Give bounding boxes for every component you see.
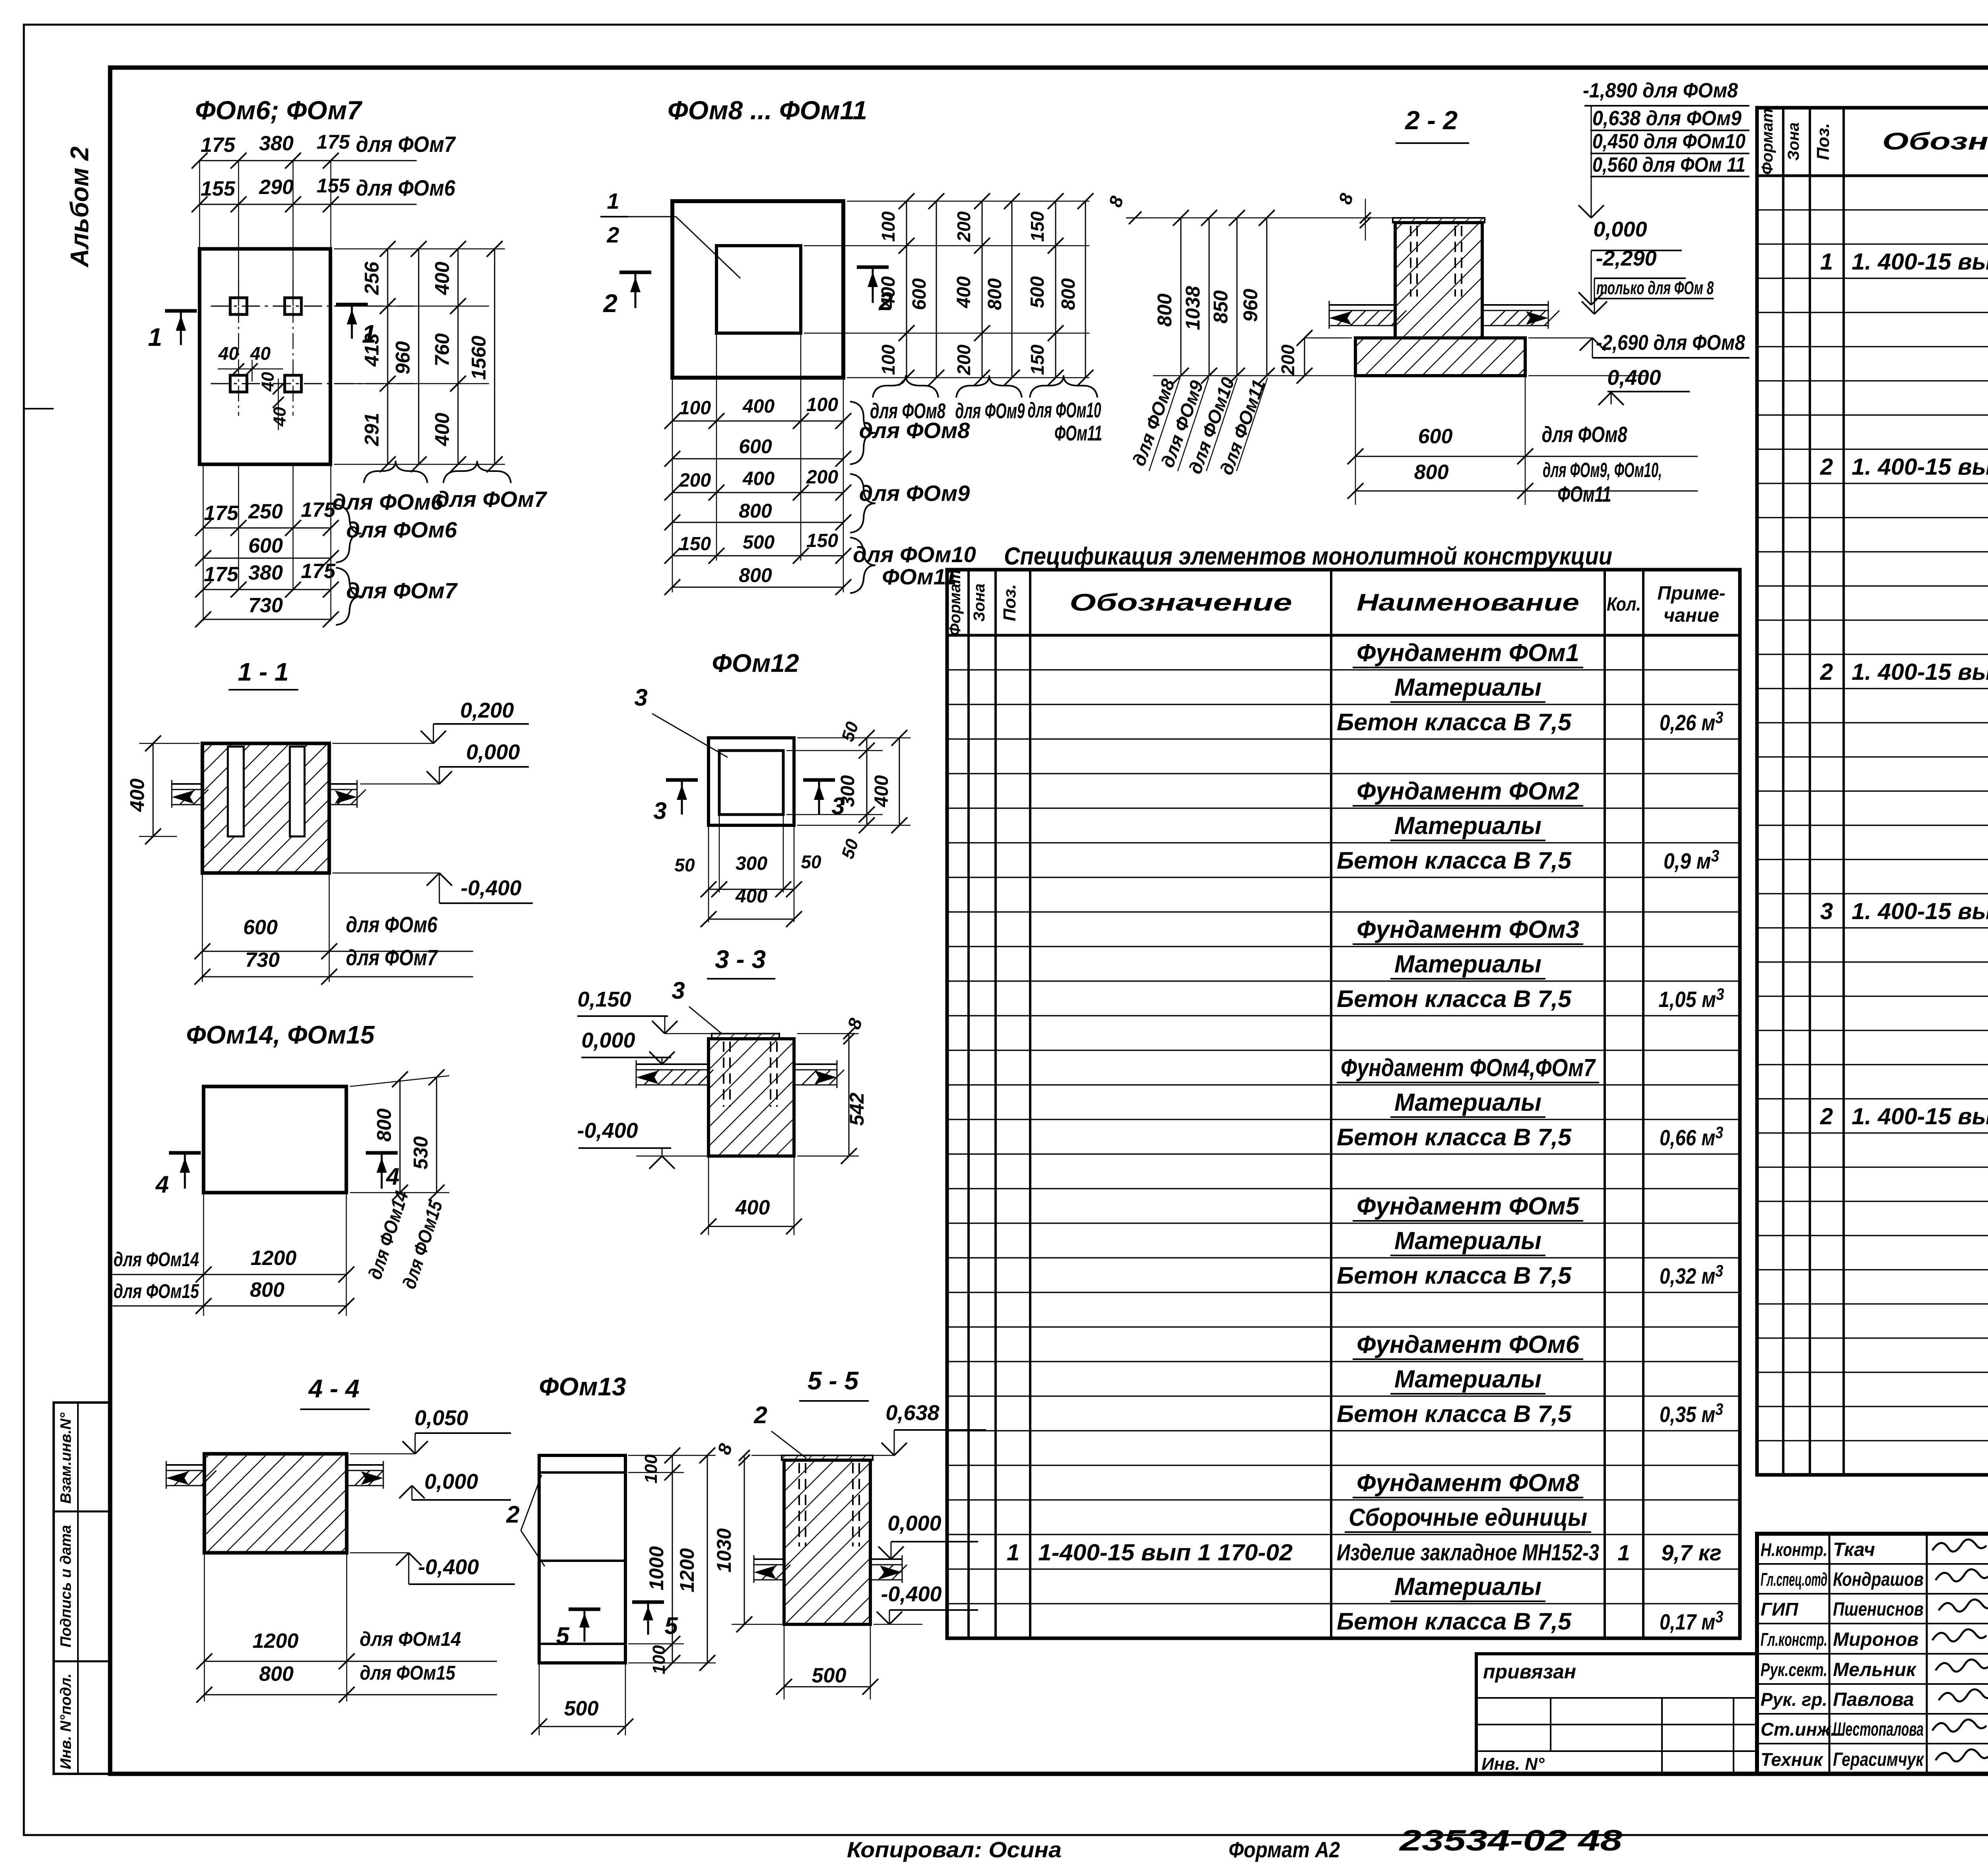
svg-text:1560: 1560	[468, 336, 490, 380]
right spec table row lines	[1757, 209, 1988, 210]
section mark 2 right	[857, 266, 889, 269]
svg-text:0,050: 0,050	[414, 1406, 468, 1430]
anchor bolt top-right	[285, 298, 301, 314]
middle spec table header	[947, 634, 1740, 637]
svg-text:100: 100	[806, 394, 838, 415]
svg-text:290: 290	[259, 176, 294, 199]
section 4-4 pier hatched	[204, 1454, 347, 1553]
svg-text:Материалы: Материалы	[1394, 674, 1541, 701]
svg-text:0,200: 0,200	[460, 698, 514, 722]
svg-text:для ФОм7: для ФОм7	[346, 945, 438, 970]
svg-text:для ФОм7: для ФОм7	[346, 578, 458, 603]
svg-text:Наименование: Наименование	[1357, 589, 1579, 616]
svg-text:500: 500	[1027, 276, 1048, 308]
svg-text:150: 150	[679, 533, 711, 555]
svg-text:0,000: 0,000	[887, 1511, 941, 1535]
plan FOm8-11 right extension lines	[847, 201, 1089, 202]
svg-text:1: 1	[1820, 249, 1833, 275]
left dim chains (2-2) 800/1038/850/960	[1126, 217, 1393, 219]
svg-text:Фундамент ФОм2: Фундамент ФОм2	[1357, 778, 1579, 805]
svg-text:для ФОм10: для ФОм10	[1028, 398, 1101, 422]
svg-text:Герасимчук: Герасимчук	[1833, 1749, 1924, 1770]
svg-text:Материалы: Материалы	[1394, 1227, 1541, 1255]
plan FOm8-11 outer square	[672, 201, 843, 378]
right spec table outline	[1757, 108, 1988, 1475]
svg-text:Поз.: Поз.	[1000, 584, 1019, 621]
dim 8 at left end of 2-2 top extension	[1126, 217, 1144, 219]
plan FOm12 inner square	[719, 751, 783, 815]
section mark 4 left	[169, 1151, 201, 1155]
svg-text:291: 291	[361, 413, 383, 446]
svg-text:150: 150	[1027, 211, 1048, 242]
svg-text:150: 150	[1027, 344, 1048, 375]
svg-text:960: 960	[1239, 289, 1262, 322]
svg-text:Ткач: Ткач	[1833, 1539, 1875, 1560]
svg-text:400: 400	[431, 262, 453, 295]
svg-text:-0,400: -0,400	[418, 1555, 479, 1579]
section 3-3 top plate	[712, 1034, 779, 1039]
section 3-3 bottom dim 400	[708, 1156, 709, 1235]
svg-text:40: 40	[250, 343, 271, 364]
section mark 1 left	[165, 309, 197, 313]
middle spec table column lines	[967, 570, 970, 1638]
svg-text:Рук. гр.: Рук. гр.	[1761, 1689, 1827, 1710]
svg-text:0,32 м3: 0,32 м3	[1660, 1261, 1723, 1288]
svg-text:0,450 для ФОм10: 0,450 для ФОм10	[1592, 130, 1745, 153]
svg-text:300: 300	[736, 853, 767, 874]
braces dlya FOm6 / FOm7 under right chains	[364, 461, 427, 483]
svg-text:800: 800	[1153, 293, 1176, 327]
section 4-4 floor slab left	[166, 1464, 204, 1466]
svg-text:2 - 2: 2 - 2	[1404, 105, 1458, 135]
svg-text:Изделие закладное МН152-3: Изделие закладное МН152-3	[1337, 1540, 1599, 1566]
svg-text:Формат А2: Формат А2	[1229, 1837, 1340, 1862]
svg-text:400: 400	[431, 413, 453, 446]
svg-text:2: 2	[1820, 454, 1833, 480]
svg-text:Подпись и дата: Подпись и дата	[58, 1525, 74, 1647]
svg-text:155: 155	[316, 175, 350, 197]
dim 8 right (3-3)	[797, 1033, 859, 1034]
svg-text:Кондрашов: Кондрашов	[1833, 1569, 1924, 1590]
bolt centerlines	[211, 306, 414, 307]
section 3-3 pier hatched	[709, 1039, 794, 1156]
svg-text:200: 200	[1277, 344, 1298, 375]
section 5-5 anchor slots dashed	[798, 1463, 800, 1546]
section 3-3 floor slab right	[794, 1063, 837, 1065]
svg-text:Материалы: Материалы	[1394, 1573, 1541, 1600]
svg-text:-1,890 для ФОм8: -1,890 для ФОм8	[1583, 79, 1738, 102]
svg-text:40: 40	[218, 343, 239, 364]
svg-text:50: 50	[801, 852, 821, 872]
svg-text:Зона: Зона	[1785, 122, 1802, 161]
svg-text:9,7 кг: 9,7 кг	[1661, 1540, 1722, 1565]
section 5-5 floor slab right	[870, 1558, 902, 1560]
middle spec table row lines	[947, 669, 1740, 670]
svg-text:2: 2	[1820, 1104, 1833, 1129]
svg-text:1-400-15 вып 1 170-02: 1-400-15 вып 1 170-02	[1038, 1540, 1293, 1566]
svg-text:100: 100	[878, 211, 899, 242]
svg-text:-0,400: -0,400	[881, 1582, 942, 1606]
privyazan grid	[1476, 1697, 1757, 1699]
svg-text:Инв. N°: Инв. N°	[1481, 1754, 1545, 1774]
svg-text:50: 50	[674, 855, 695, 875]
svg-text:0,560 для ФОм 11: 0,560 для ФОм 11	[1592, 153, 1745, 177]
svg-text:0,9 м3: 0,9 м3	[1664, 846, 1719, 873]
plan FOm12 outer square	[709, 738, 794, 825]
plan FOm6/7 extension verticals from dims	[199, 161, 200, 249]
svg-text:200: 200	[679, 470, 711, 491]
svg-text:1. 400-15 вып.1 170-02: 1. 400-15 вып.1 170-02	[1852, 249, 1988, 275]
svg-text:542: 542	[846, 1092, 868, 1126]
plan FOm8-11 inner square	[716, 246, 801, 333]
svg-text:Бетон класса В 7,5: Бетон класса В 7,5	[1337, 709, 1572, 735]
section 5-5 pier hatched	[784, 1460, 870, 1624]
svg-text:Альбом 2: Альбом 2	[65, 146, 94, 268]
svg-text:1: 1	[1617, 1540, 1630, 1565]
svg-text:Мельник: Мельник	[1833, 1659, 1917, 1680]
svg-text:800: 800	[259, 1663, 294, 1686]
svg-text:для ФОм6: для ФОм6	[346, 912, 438, 937]
right dim chain dlya FOm9: 200/400/200 and 800	[982, 201, 983, 246]
svg-text:1. 400-15 вып.1 180-14: 1. 400-15 вып.1 180-14	[1852, 1104, 1988, 1129]
svg-text:1200: 1200	[250, 1247, 297, 1270]
svg-text:Бетон класса В 7,5: Бетон класса В 7,5	[1337, 1124, 1572, 1150]
section mark 3 left	[666, 778, 698, 782]
section 3-3 floor slab left	[636, 1063, 709, 1065]
section 2-2 anchor slots dashed	[1410, 226, 1411, 297]
svg-text:1. 400-15 вып.1 180-14: 1. 400-15 вып.1 180-14	[1852, 454, 1988, 480]
section 4-4 floor slab right	[347, 1464, 383, 1466]
svg-text:Гл.спец.отд: Гл.спец.отд	[1761, 1569, 1827, 1590]
dim 542 right (3-3)	[797, 1156, 859, 1157]
svg-text:800: 800	[250, 1278, 285, 1302]
svg-text:ФОм14, ФОм15: ФОм14, ФОм15	[186, 1020, 375, 1049]
svg-text:380: 380	[248, 561, 283, 584]
svg-text:100: 100	[878, 344, 899, 375]
left margin stamp boxes	[54, 1403, 110, 1774]
svg-text:1: 1	[607, 188, 619, 213]
svg-text:ФОм8 ... ФОм11: ФОм8 ... ФОм11	[668, 95, 867, 125]
svg-text:для ФОм14: для ФОм14	[114, 1248, 199, 1271]
svg-text:Н.контр.: Н.контр.	[1761, 1539, 1827, 1560]
svg-text:175: 175	[316, 131, 350, 153]
svg-text:2: 2	[1820, 659, 1833, 685]
svg-text:Фундамент ФОм6: Фундамент ФОм6	[1357, 1331, 1580, 1358]
svg-text:400: 400	[742, 396, 775, 417]
svg-text:для ФОм8: для ФОм8	[1542, 422, 1628, 447]
svg-text:5 - 5: 5 - 5	[808, 1366, 859, 1395]
dim 200 (2-2 footing height)	[1304, 338, 1305, 376]
svg-text:5: 5	[664, 1612, 678, 1639]
svg-text:175: 175	[301, 499, 336, 522]
svg-text:Формат: Формат	[1759, 109, 1776, 175]
svg-text:для ФОм7: для ФОм7	[356, 132, 456, 157]
svg-text:3: 3	[653, 797, 666, 824]
svg-text:только для ФОм 8: только для ФОм 8	[1596, 277, 1714, 298]
middle spec table outline	[947, 570, 1740, 1638]
svg-text:3: 3	[672, 977, 685, 1004]
svg-text:0,638: 0,638	[885, 1401, 939, 1425]
section mark 4 right	[366, 1151, 398, 1155]
margin centering tick	[24, 408, 54, 409]
svg-text:150: 150	[806, 530, 838, 551]
right dim chain dlya FOm8: 100/400/100 and 600	[906, 201, 907, 246]
svg-text:400: 400	[953, 276, 975, 308]
svg-text:Взам.инв.N°: Взам.инв.N°	[58, 1412, 74, 1504]
svg-text:100: 100	[649, 1645, 669, 1674]
svg-text:Миронов: Миронов	[1833, 1629, 1918, 1650]
svg-text:Сборочные единицы: Сборочные единицы	[1349, 1504, 1587, 1531]
privyazan box	[1476, 1654, 1757, 1774]
section 2-2 floor slab right	[1482, 304, 1548, 306]
svg-text:0,000: 0,000	[1593, 217, 1647, 241]
svg-text:4: 4	[386, 1163, 399, 1190]
svg-text:Копировал: Осина: Копировал: Осина	[847, 1837, 1062, 1862]
svg-text:Обозначение: Обозначение	[1882, 128, 1988, 155]
svg-text:600: 600	[248, 534, 283, 557]
svg-text:Фундамент ФОм5: Фундамент ФОм5	[1357, 1193, 1580, 1220]
plan FOm6/7 bottom dim rows	[203, 464, 204, 621]
svg-text:0,000: 0,000	[424, 1470, 478, 1494]
svg-text:800: 800	[739, 500, 772, 522]
svg-text:Материалы: Материалы	[1394, 1089, 1541, 1116]
anchor bolt bottom-right	[285, 375, 301, 392]
svg-text:200: 200	[953, 344, 974, 375]
svg-text:1030: 1030	[713, 1528, 735, 1572]
svg-text:400: 400	[742, 468, 775, 489]
svg-text:Техник: Техник	[1761, 1749, 1824, 1770]
svg-text:Материалы: Материалы	[1394, 812, 1541, 840]
svg-text:0,000: 0,000	[581, 1028, 635, 1052]
svg-text:960: 960	[392, 341, 414, 374]
svg-text:4: 4	[155, 1171, 169, 1198]
svg-text:для ФОм6: для ФОм6	[332, 489, 443, 514]
svg-text:0,638 для ФОм9: 0,638 для ФОм9	[1592, 107, 1741, 130]
svg-text:Павлова: Павлова	[1833, 1689, 1914, 1710]
svg-text:256: 256	[361, 261, 383, 295]
section 1-1 pier hatched	[202, 743, 329, 873]
svg-text:Фундамент ФОм8: Фундамент ФОм8	[1357, 1469, 1580, 1497]
plan FOm8-11 bottom extension lines	[672, 378, 673, 592]
svg-text:40: 40	[258, 372, 278, 392]
svg-text:1: 1	[1007, 1540, 1019, 1566]
svg-text:Бетон класса В 7,5: Бетон класса В 7,5	[1337, 847, 1572, 874]
svg-text:500: 500	[743, 532, 775, 553]
svg-text:Бетон класса В 7,5: Бетон класса В 7,5	[1337, 1262, 1572, 1289]
section 2-2 floor slab left	[1329, 304, 1395, 306]
svg-text:0,66 м3: 0,66 м3	[1660, 1123, 1723, 1150]
svg-text:Материалы: Материалы	[1394, 1366, 1541, 1393]
svg-text:для ФОм7: для ФОм7	[436, 487, 547, 512]
svg-text:для ФОм6: для ФОм6	[346, 517, 457, 542]
svg-text:250: 250	[248, 500, 283, 523]
svg-text:Формат: Формат	[946, 570, 964, 636]
svg-text:400: 400	[126, 778, 148, 812]
svg-text:0,400: 0,400	[1607, 366, 1661, 390]
svg-text:5: 5	[556, 1622, 570, 1649]
plan FOm6/7 body rectangle	[200, 249, 330, 464]
svg-text:ФОм11: ФОм11	[1054, 421, 1102, 445]
section 5-5 top plate	[782, 1455, 873, 1460]
section 3-3 anchor slots dashed	[723, 1042, 724, 1107]
svg-text:1200: 1200	[252, 1630, 299, 1653]
section 1-1 floor slab left	[172, 783, 202, 785]
svg-text:300: 300	[837, 775, 858, 807]
svg-text:-0,400: -0,400	[577, 1119, 638, 1143]
section 4-4 bottom dims	[204, 1553, 205, 1701]
svg-text:1000: 1000	[645, 1546, 668, 1590]
svg-text:1038: 1038	[1182, 286, 1204, 330]
svg-text:чание: чание	[1664, 605, 1719, 626]
svg-text:Пшениснов: Пшениснов	[1833, 1599, 1924, 1620]
svg-text:3: 3	[1820, 898, 1833, 924]
plan FOm14/15 right dims 800 530	[350, 1076, 449, 1086]
plan FOm12 right dims 50 300 50 / 400	[797, 737, 911, 739]
svg-text:Зона: Зона	[971, 584, 988, 622]
plan FOm14/15 rectangle	[204, 1086, 346, 1193]
svg-text:600: 600	[739, 435, 772, 458]
svg-text:2: 2	[506, 1501, 519, 1528]
svg-text:1. 400-15 вып.1 180-14: 1. 400-15 вып.1 180-14	[1852, 659, 1988, 685]
svg-text:Приме-: Приме-	[1657, 583, 1725, 604]
svg-text:600: 600	[243, 916, 278, 939]
svg-text:400: 400	[735, 886, 767, 907]
svg-text:500: 500	[812, 1664, 846, 1687]
svg-text:Инв. N°подл.: Инв. N°подл.	[58, 1673, 74, 1769]
svg-text:для ФОм10: для ФОм10	[853, 542, 976, 567]
svg-text:Поз.: Поз.	[1813, 123, 1833, 160]
anchor bolt bottom-left	[230, 375, 247, 392]
braces and labels under right chains	[873, 375, 938, 398]
svg-text:2: 2	[753, 1402, 767, 1428]
section 2-2 bottom dims 600/800	[1355, 376, 1356, 505]
right dim chain dlya FOm10/11: 150/500/150 and 800	[1055, 201, 1056, 246]
svg-text:175: 175	[301, 560, 336, 583]
section 1-1 bottom dims	[202, 873, 203, 982]
svg-text:Кол.: Кол.	[1607, 594, 1641, 615]
svg-text:-2,290: -2,290	[1596, 246, 1656, 270]
dim 8 (2-2 plate)	[1360, 212, 1371, 223]
svg-text:850: 850	[1209, 290, 1232, 324]
svg-text:Фундамент ФОм4,ФОм7: Фундамент ФОм4,ФОм7	[1341, 1054, 1596, 1082]
svg-text:1. 400-15 вып.1 130-56: 1. 400-15 вып.1 130-56	[1852, 898, 1988, 924]
svg-text:175: 175	[201, 134, 236, 157]
svg-text:ФОм6; ФОм7: ФОм6; ФОм7	[195, 95, 363, 125]
svg-text:Гл.констр.: Гл.констр.	[1761, 1629, 1827, 1650]
svg-text:413: 413	[361, 333, 383, 367]
svg-text:730: 730	[248, 594, 283, 617]
svg-text:Обозначение: Обозначение	[1070, 589, 1292, 616]
svg-text:40: 40	[270, 407, 289, 427]
svg-text:Ст.инж.: Ст.инж.	[1761, 1719, 1836, 1740]
section 2-2 top plate	[1393, 218, 1485, 223]
svg-text:Фундамент ФОм1: Фундамент ФОм1	[1357, 639, 1579, 667]
svg-text:100: 100	[679, 398, 711, 419]
FOm13 body	[539, 1455, 625, 1663]
section 5-5 floor slab left	[754, 1558, 784, 1560]
svg-text:1 - 1: 1 - 1	[238, 658, 289, 686]
svg-text:800: 800	[739, 564, 772, 586]
svg-text:760: 760	[431, 333, 453, 367]
section 2-2 footing hatched	[1355, 338, 1525, 376]
svg-text:800: 800	[1058, 278, 1079, 310]
svg-text:4 - 4: 4 - 4	[308, 1374, 359, 1403]
svg-text:0,17 м3: 0,17 м3	[1660, 1607, 1723, 1634]
right spec table header	[1757, 175, 1988, 177]
dim 8 and 1030 left (5-5)	[751, 1455, 784, 1456]
svg-text:ФОм12: ФОм12	[712, 649, 799, 677]
svg-text:600: 600	[1418, 425, 1453, 448]
svg-text:0,35 м3: 0,35 м3	[1660, 1400, 1723, 1427]
svg-text:-0,400: -0,400	[460, 876, 521, 900]
svg-text:380: 380	[259, 132, 294, 155]
section mark 3 right	[803, 778, 835, 782]
section 1-1 floor slab right	[329, 783, 357, 785]
svg-text:1200: 1200	[676, 1548, 698, 1592]
svg-text:800: 800	[373, 1108, 395, 1142]
svg-text:Бетон класса В 7,5: Бетон класса В 7,5	[1337, 985, 1572, 1012]
section 2-2 pier hatched	[1395, 223, 1482, 338]
svg-text:Рук.сект.: Рук.сект.	[1761, 1659, 1827, 1680]
svg-text:0,26 м3: 0,26 м3	[1660, 708, 1723, 735]
anchor bolt top-left	[230, 298, 247, 314]
svg-text:400: 400	[871, 775, 892, 807]
svg-text:для ФОм9, ФОм10,: для ФОм9, ФОм10,	[1543, 459, 1662, 482]
svg-text:для ФОм8: для ФОм8	[859, 418, 970, 443]
section mark 2 left	[619, 271, 651, 274]
right spec table column lines	[1782, 108, 1784, 1475]
svg-text:0,150: 0,150	[577, 987, 631, 1011]
svg-text:для ФОм9: для ФОм9	[859, 481, 970, 506]
section 1-1 anchor slots	[228, 747, 244, 836]
svg-text:ГИП: ГИП	[1761, 1599, 1798, 1620]
dim 400 left (1-1)	[139, 743, 200, 744]
section mark 5 right	[632, 1600, 664, 1604]
svg-text:730: 730	[245, 949, 280, 972]
title block left grid	[1757, 1563, 1988, 1565]
svg-text:ФОм13: ФОм13	[539, 1372, 626, 1401]
plan FOm12 bottom dims 50 300 50 / 400	[708, 825, 709, 922]
svg-text:2: 2	[606, 222, 619, 247]
svg-text:200: 200	[806, 467, 838, 488]
svg-text:155: 155	[201, 177, 236, 200]
FOm13 right dims 100 1000 100 / 1200	[628, 1455, 716, 1456]
plan FOm14/15 bottom dims	[203, 1193, 204, 1316]
svg-text:3 - 3: 3 - 3	[715, 945, 766, 974]
title block signatures	[1932, 1539, 1986, 1551]
section 5-5 bottom dim 500	[784, 1624, 785, 1699]
svg-text:175: 175	[204, 563, 239, 586]
svg-text:400: 400	[878, 276, 899, 308]
svg-text:Материалы: Материалы	[1394, 951, 1541, 978]
svg-text:530: 530	[410, 1136, 432, 1170]
svg-text:1: 1	[148, 323, 162, 351]
svg-text:400: 400	[735, 1196, 770, 1219]
svg-text:Бетон класса В 7,5: Бетон класса В 7,5	[1337, 1608, 1572, 1635]
svg-text:0,000: 0,000	[466, 740, 520, 764]
svg-text:2: 2	[603, 289, 617, 318]
svg-text:привязан: привязан	[1483, 1661, 1576, 1683]
svg-text:3: 3	[634, 684, 647, 711]
svg-text:для ФОм15: для ФОм15	[360, 1662, 456, 1684]
svg-text:200: 200	[953, 211, 974, 242]
svg-text:ФОм11: ФОм11	[1558, 481, 1611, 506]
title block outline	[1757, 1534, 1988, 1774]
svg-text:Спецификация элементов монол: Спецификация элементов монолитной констр…	[1004, 543, 1612, 570]
svg-text:для ФОм15: для ФОм15	[114, 1280, 200, 1302]
svg-text:100: 100	[641, 1454, 661, 1484]
FOm13 bottom dim 500	[539, 1663, 540, 1735]
